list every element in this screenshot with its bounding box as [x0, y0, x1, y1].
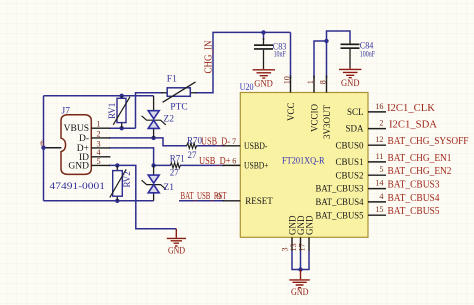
resistor R70	[187, 135, 203, 159]
svg-text:6: 6	[232, 157, 236, 166]
wire shield loop bottom horizontal	[44, 200, 154, 202]
svg-text:PTC: PTC	[170, 103, 187, 113]
wire GND from J7 pin5 down to gnd symbol	[109, 165, 176, 228]
svg-text:FT201XQ-R: FT201XQ-R	[282, 156, 325, 166]
ground symbol below chip	[289, 270, 309, 298]
wire USB D- from J7 pin2	[109, 138, 187, 146]
ground symbol for USB shield/GND net	[167, 229, 186, 256]
IC pin names left	[244, 141, 273, 206]
svg-text:CBUS0: CBUS0	[335, 140, 364, 150]
wire VCCIO pin1 riser	[314, 41, 327, 78]
wire VCC pin10 drop	[290, 32, 292, 78]
svg-text:VCCIO: VCCIO	[310, 103, 320, 132]
IC pin numbers left	[217, 137, 236, 201]
svg-text:10nF: 10nF	[274, 49, 287, 58]
svg-text:BAT_CHG_EN1: BAT_CHG_EN1	[388, 153, 452, 164]
svg-text:100nF: 100nF	[360, 49, 376, 58]
wire USB D+ from J7 pin3	[109, 148, 171, 166]
junction dot RV2 top	[115, 163, 119, 167]
wire VBUS from J7 pin1 to riser	[109, 127, 136, 129]
svg-text:I2C1_CLK: I2C1_CLK	[387, 103, 436, 114]
svg-text:BAT_CBUS4: BAT_CBUS4	[388, 193, 440, 204]
junction dot RV2 bottom on loop	[115, 199, 119, 203]
junction dot D+ at Z1 top	[151, 163, 155, 167]
svg-text:USB_D-: USB_D-	[201, 137, 230, 148]
svg-text:CHG_IN: CHG_IN	[204, 41, 215, 74]
wire shield loop left vertical	[43, 96, 45, 201]
varistor RV2	[110, 165, 132, 200]
svg-text:BAT_CBUS4: BAT_CBUS4	[316, 197, 364, 207]
svg-text:BAT_CHG_EN2: BAT_CHG_EN2	[388, 166, 452, 177]
IC pin numbers top (rotated)	[282, 76, 327, 84]
IC left pin lines	[223, 146, 241, 201]
svg-text:SCL: SCL	[347, 107, 364, 117]
wire fuse F1 output to CHG_IN riser	[195, 32, 291, 92]
IC bottom pin lines	[292, 237, 309, 250]
svg-text:BAT_USB_RST: BAT_USB_RST	[181, 191, 227, 202]
ground symbol under C83	[253, 69, 275, 89]
svg-text:F1: F1	[167, 74, 177, 84]
IC pin numbers bottom (rotated)	[281, 243, 307, 251]
svg-text:RESET: RESET	[245, 196, 273, 206]
svg-text:10: 10	[282, 76, 291, 84]
svg-text:VCC: VCC	[286, 102, 296, 121]
junction dot chip GND pins	[298, 267, 302, 271]
svg-text:J7: J7	[62, 107, 71, 117]
svg-text:27: 27	[188, 150, 198, 160]
svg-text:2: 2	[379, 119, 383, 128]
svg-text:CBUS2: CBUS2	[335, 170, 363, 180]
ground symbol under C84	[339, 67, 361, 88]
svg-text:16: 16	[375, 102, 383, 111]
IC pin numbers right	[375, 102, 383, 214]
IC pin names top (rotated)	[286, 102, 332, 139]
IC pin names right	[316, 107, 364, 220]
svg-text:R71: R71	[170, 153, 185, 163]
junction dot J7 pin6 on loop	[41, 146, 45, 150]
svg-text:4: 4	[379, 192, 383, 201]
svg-text:U20: U20	[240, 83, 254, 93]
connector J7 pin numbers	[40, 120, 100, 166]
svg-text:SDA: SDA	[345, 124, 364, 134]
svg-text:VBUS: VBUS	[64, 124, 89, 134]
svg-text:USBD-: USBD-	[244, 141, 268, 151]
IC top pin lines	[291, 76, 327, 93]
TVS diode Z2	[142, 96, 175, 138]
svg-text:D-: D-	[79, 134, 89, 144]
TVS diode Z1	[142, 165, 175, 200]
wire BAT_USB_RST to chip RESET	[179, 200, 224, 202]
svg-text:15: 15	[375, 205, 383, 214]
svg-text:GND: GND	[254, 78, 273, 88]
svg-text:GND: GND	[305, 215, 315, 235]
wire C83 tap	[263, 32, 265, 40]
wire chip bottom GND pins join	[292, 250, 309, 270]
svg-text:17: 17	[298, 243, 307, 251]
svg-text:2: 2	[97, 129, 101, 138]
wire 3V3OUT pin8 riser to C84	[327, 31, 351, 78]
svg-text:12: 12	[375, 135, 383, 144]
svg-text:47491-0001: 47491-0001	[50, 182, 106, 192]
svg-text:RV1: RV1	[107, 103, 117, 119]
svg-text:5: 5	[379, 165, 383, 174]
svg-text:1: 1	[306, 80, 315, 84]
svg-text:Z1: Z1	[163, 183, 174, 193]
svg-text:GND: GND	[291, 287, 309, 297]
junction dot VCCIO joins 3V3OUT	[324, 39, 328, 43]
IC right pin lines	[368, 112, 386, 215]
IC pin names bottom GND (rotated)	[288, 215, 315, 235]
svg-text:CBUS1: CBUS1	[335, 157, 363, 167]
svg-text:7: 7	[232, 137, 236, 146]
svg-text:USB_D+: USB_D+	[199, 156, 231, 167]
connector J7 pin names	[64, 124, 89, 171]
capacitor C83	[254, 38, 287, 69]
varistor RV1	[107, 96, 130, 128]
connector J7 pin lines	[46, 128, 110, 165]
junction dot RV1 top on loop	[120, 94, 124, 98]
junction dot C83 tap	[261, 30, 265, 34]
svg-text:GND: GND	[168, 246, 185, 256]
svg-text:8: 8	[319, 80, 328, 84]
svg-text:14: 14	[375, 179, 383, 188]
wire shield loop top horizontal	[44, 95, 154, 97]
junction dot RV1 bottom on VBUS	[120, 126, 124, 130]
svg-text:5: 5	[97, 157, 101, 166]
svg-text:Z2: Z2	[163, 114, 174, 124]
wire VBUS riser up to fuse level	[136, 93, 164, 128]
junction dot Z2 bottom on D-	[151, 136, 155, 140]
wire USB D- from R70 to chip USBD-	[196, 145, 224, 147]
svg-text:27: 27	[170, 167, 180, 177]
svg-text:3: 3	[97, 139, 101, 148]
svg-text:BAT_CBUS3: BAT_CBUS3	[316, 184, 364, 194]
IC U20 FT201XQ-R body	[240, 93, 368, 238]
resistor R71	[170, 153, 185, 177]
svg-text:6: 6	[40, 139, 44, 148]
capacitor C84	[341, 40, 376, 68]
svg-text:11: 11	[376, 152, 384, 161]
svg-text:GND: GND	[68, 161, 89, 171]
fuse F1 PTC	[161, 74, 197, 112]
svg-text:I2C1_SDA: I2C1_SDA	[389, 120, 438, 131]
svg-text:BAT_CBUS5: BAT_CBUS5	[388, 206, 440, 217]
svg-text:USBD+: USBD+	[244, 161, 269, 171]
svg-text:BAT_CHG_SYSOFF: BAT_CHG_SYSOFF	[388, 136, 469, 147]
svg-text:RV2: RV2	[122, 171, 132, 187]
svg-text:GND: GND	[341, 78, 360, 88]
svg-text:BAT_CBUS5: BAT_CBUS5	[316, 210, 364, 220]
svg-text:BAT_CBUS3: BAT_CBUS3	[388, 180, 440, 191]
wire J7 pin6 stub	[44, 147, 62, 149]
svg-text:1: 1	[97, 120, 101, 129]
connector J7 body	[61, 115, 91, 175]
wire USB D+ from R71 to chip USBD+	[180, 164, 224, 166]
svg-text:3V3OUT: 3V3OUT	[322, 105, 332, 139]
